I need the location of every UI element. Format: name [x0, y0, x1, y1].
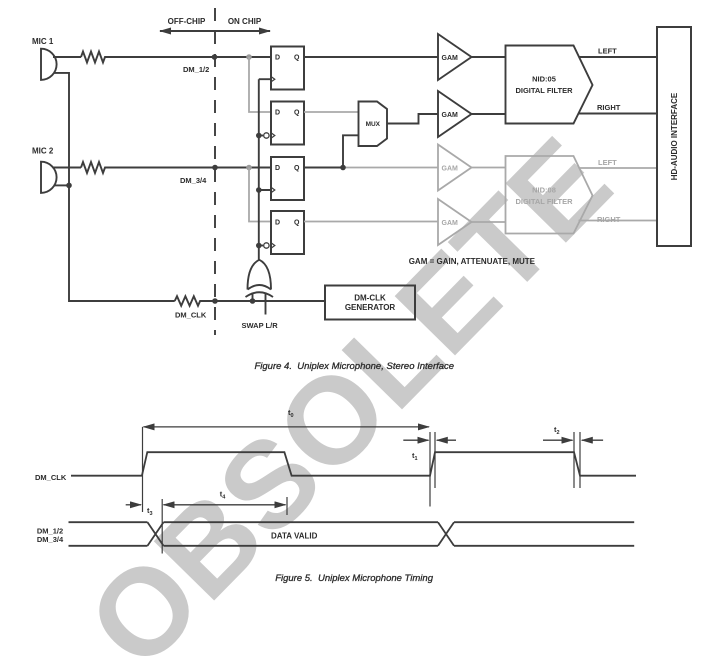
svg-text:DIGITAL FILTER: DIGITAL FILTER	[515, 197, 573, 206]
svg-text:Q: Q	[294, 110, 300, 117]
svg-text:DM_1/2: DM_1/2	[37, 527, 63, 536]
svg-text:GAM: GAM	[442, 220, 459, 227]
svg-text:RIGHT: RIGHT	[597, 103, 621, 112]
svg-text:Q: Q	[294, 165, 300, 172]
svg-text:MIC 1: MIC 1	[32, 37, 54, 46]
svg-text:D: D	[275, 110, 280, 117]
svg-text:DATA VALID: DATA VALID	[271, 532, 318, 541]
svg-text:GAM = GAIN, ATTENUATE, MUTE: GAM = GAIN, ATTENUATE, MUTE	[409, 257, 536, 266]
svg-text:D: D	[275, 165, 280, 172]
svg-text:MIC 2: MIC 2	[32, 147, 54, 156]
svg-text:HD-AUDIO INTERFACE: HD-AUDIO INTERFACE	[670, 92, 679, 180]
svg-text:DM-CLK: DM-CLK	[354, 294, 386, 303]
svg-text:DIGITAL FILTER: DIGITAL FILTER	[515, 86, 573, 95]
svg-text:DM_3/4: DM_3/4	[180, 176, 207, 185]
svg-text:RIGHT: RIGHT	[597, 215, 621, 224]
svg-text:D: D	[275, 220, 280, 227]
svg-text:GENERATOR: GENERATOR	[345, 303, 396, 312]
svg-text:LEFT: LEFT	[598, 158, 617, 167]
svg-text:GAM: GAM	[442, 55, 459, 62]
svg-text:ON CHIP: ON CHIP	[228, 17, 262, 26]
svg-text:LEFT: LEFT	[598, 47, 617, 56]
svg-text:NID:08: NID:08	[532, 186, 556, 195]
svg-text:NID:05: NID:05	[532, 75, 556, 84]
svg-text:Figure 4. Uniplex Microphone,: Figure 4. Uniplex Microphone, Stereo Int…	[254, 361, 454, 372]
svg-text:Figure 5. Uniplex Microphone: Figure 5. Uniplex Microphone Timing	[275, 573, 434, 584]
svg-text:Q: Q	[294, 220, 300, 227]
svg-text:GAM: GAM	[442, 112, 459, 119]
svg-text:DM_3/4: DM_3/4	[37, 535, 64, 544]
svg-text:Q: Q	[294, 55, 300, 62]
svg-text:DM_1/2: DM_1/2	[183, 65, 209, 74]
svg-text:GAM: GAM	[442, 166, 459, 173]
svg-text:D: D	[275, 55, 280, 62]
svg-text:DM_CLK: DM_CLK	[35, 473, 67, 482]
svg-text:MUX: MUX	[366, 121, 381, 128]
svg-text:SWAP L/R: SWAP L/R	[242, 321, 279, 330]
svg-text:OFF-CHIP: OFF-CHIP	[168, 17, 206, 26]
svg-text:DM_CLK: DM_CLK	[175, 311, 207, 320]
